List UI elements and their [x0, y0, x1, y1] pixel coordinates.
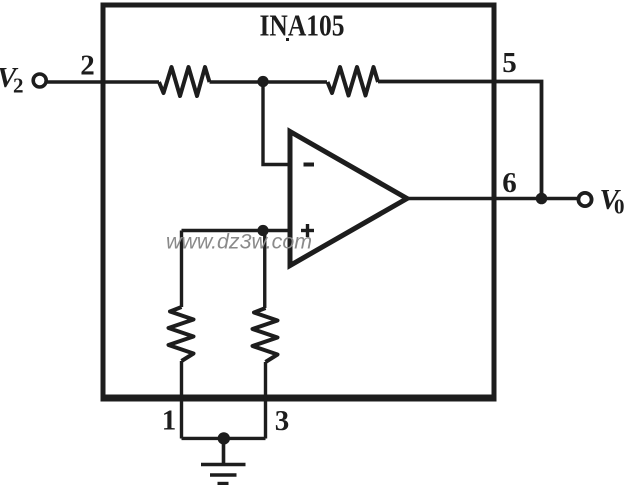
svg-text:6: 6 — [502, 167, 517, 199]
ground stem wire — [222, 439, 226, 465]
node B junction — [257, 225, 268, 236]
output terminal V0 — [578, 193, 591, 206]
resistor R4 — [253, 308, 278, 362]
wire R3 to bottom rail (pin 1) — [180, 361, 183, 439]
op-amp U1 — [290, 132, 407, 266]
label INA105 — [260, 8, 345, 43]
resistor R2 — [328, 67, 379, 96]
wire node A to op-amp inverting input — [263, 82, 290, 165]
node A junction — [257, 76, 268, 87]
resistor R3 — [169, 307, 194, 361]
label V2 — [0, 62, 24, 98]
watermark www.dz3w.com — [166, 231, 312, 254]
ground — [201, 465, 246, 484]
IC boundary box INA105 — [101, 5, 497, 399]
pin 6 label — [502, 167, 517, 199]
bottom joining wire — [182, 437, 266, 440]
wire R4 to bottom rail (pin 3) — [264, 362, 267, 439]
wire node B down to R4 — [263, 229, 266, 308]
svg-text:2: 2 — [80, 50, 95, 82]
pin 2 label — [80, 50, 95, 82]
wire op-amp non-inverting input rail — [182, 229, 291, 232]
svg-text:3: 3 — [275, 405, 290, 437]
wire input terminal to R1 — [47, 80, 160, 83]
label V0 — [600, 184, 625, 219]
pin 3 label — [275, 405, 290, 437]
ground junction node — [218, 432, 230, 444]
pin 1 label — [162, 405, 177, 437]
svg-text:5: 5 — [502, 47, 517, 79]
wire R2 to pin 5 and feedback drop — [378, 82, 542, 199]
svg-text:1: 1 — [162, 405, 177, 437]
resistor R1 — [159, 67, 210, 96]
svg-text:0: 0 — [614, 195, 625, 219]
svg-text:INA105: INA105 — [260, 8, 345, 43]
svg-text:2: 2 — [13, 74, 24, 98]
node C junction (pin 6 / feedback) — [536, 193, 548, 205]
svg-text:www.dz3w.com: www.dz3w.com — [166, 231, 312, 254]
output wire op-amp to terminal — [407, 197, 578, 200]
wire R1 to node A — [210, 80, 264, 83]
wire node A to R2 — [263, 80, 327, 83]
input terminal V2 — [33, 74, 46, 87]
wire plus rail down to R3 — [180, 231, 183, 308]
pin 5 label — [502, 47, 517, 79]
